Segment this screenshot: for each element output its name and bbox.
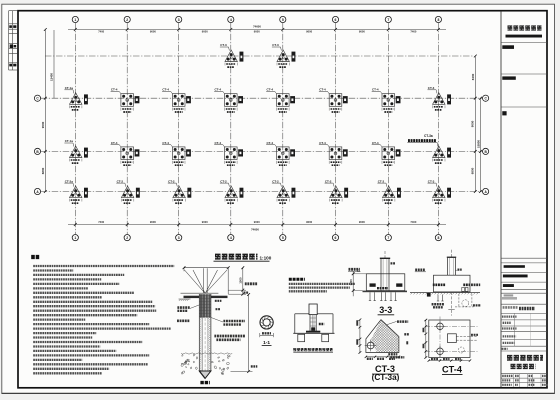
svg-text:CT-2: CT-2 <box>168 179 175 183</box>
top grid bubbles 1-8 <box>72 16 441 22</box>
svg-text:3: 3 <box>178 18 180 22</box>
mini elevation: column <box>309 304 317 331</box>
svg-text:7: 7 <box>387 236 389 240</box>
svg-text:9000: 9000 <box>254 220 260 224</box>
title block bar row 2 <box>503 275 528 278</box>
pile cap CT-4 row 2 col 3 <box>162 141 191 165</box>
svg-text:CT-2: CT-2 <box>325 179 332 183</box>
pile cap CT-3 row 3 col 8 <box>428 179 452 203</box>
pile cap CT-4 row 1 col 5 <box>266 88 295 112</box>
cap section: column <box>447 250 462 276</box>
svg-text:9000: 9000 <box>202 30 208 34</box>
svg-text:1:100: 1:100 <box>260 255 272 260</box>
pile cap CT-4 row 1 col 2 <box>111 88 140 112</box>
svg-text:6800: 6800 <box>41 167 45 174</box>
svg-text:7: 7 <box>387 18 389 22</box>
svg-text:8: 8 <box>437 18 439 22</box>
svg-text:(CT-3a): (CT-3a) <box>372 373 400 382</box>
detail CT-4 plan: outline <box>425 317 478 361</box>
notes text lines <box>33 266 174 373</box>
pile detail: shaft <box>199 294 211 371</box>
title block: institute name <box>508 25 542 30</box>
pile cap CT-4 row 2 col 4 <box>214 141 243 165</box>
pile cap CT-4 row 1 col 6 <box>319 88 348 112</box>
svg-text:9000: 9000 <box>41 121 45 128</box>
pile cap CT-4 row 2 col 2 <box>111 141 140 165</box>
mini elevation: caption <box>293 349 333 352</box>
title block stamp box 2 <box>502 76 516 79</box>
title block project name row <box>503 306 518 309</box>
pile detail: tip label <box>200 381 209 384</box>
section 3-3: column <box>380 251 395 291</box>
svg-text:CT-1a: CT-1a <box>65 86 74 90</box>
svg-text:CT-2: CT-2 <box>117 179 124 183</box>
svg-text:5: 5 <box>282 18 284 22</box>
detail CT-4 plan: column stub <box>448 334 479 353</box>
pile detail: pile tip <box>199 371 211 378</box>
svg-text:15800: 15800 <box>476 140 480 148</box>
svg-text:3-3: 3-3 <box>379 305 392 315</box>
sub-notes heading <box>289 278 305 281</box>
svg-text:4: 4 <box>230 236 232 240</box>
mini elevation: pile legs <box>298 334 329 341</box>
svg-text:CT-4: CT-4 <box>372 141 379 145</box>
cap section: -1.50 level label <box>415 270 426 272</box>
svg-text:9000: 9000 <box>306 30 312 34</box>
svg-text:1500: 1500 <box>239 277 243 284</box>
bottom outer accent line <box>2 392 555 394</box>
svg-text:74600: 74600 <box>253 24 261 28</box>
title block gray bar 1 <box>504 294 514 296</box>
pile cap CT-3 row 1 col 8 <box>428 86 452 110</box>
mini elevation: cap outline <box>293 314 334 334</box>
left dimension line <box>41 28 54 193</box>
left grid bubbles <box>34 95 40 194</box>
label CT-3a with elevation note <box>407 134 438 146</box>
bottom grid bubbles 1-8 <box>72 235 441 241</box>
pile cap CT-2 row 3 col 6 <box>325 179 349 203</box>
detail CT-3 plan: left dims <box>356 319 361 354</box>
svg-text:9000: 9000 <box>150 30 156 34</box>
detail CT-3 plan: bottom dims <box>365 356 400 359</box>
svg-text:9000: 9000 <box>254 30 260 34</box>
pile cap CT-4 row 1 col 3 <box>162 88 191 112</box>
pile detail: anchor bar fan <box>185 268 228 293</box>
pile detail: cap slab band <box>184 296 228 298</box>
right grid bubbles <box>483 95 489 194</box>
svg-text:7400: 7400 <box>410 30 416 34</box>
left revision strip <box>9 11 18 70</box>
pile cap CT-2 row 3 col 7 <box>377 179 401 203</box>
title block gray bar 2 <box>502 297 517 300</box>
svg-text:CT-4: CT-4 <box>319 88 326 92</box>
pile cap CT-3 top row col 4 <box>220 43 244 67</box>
pile cap CT-2 row 3 col 3 <box>168 179 191 203</box>
svg-text:CT-4: CT-4 <box>215 141 222 145</box>
svg-text:6: 6 <box>335 236 337 240</box>
svg-text:CT-2: CT-2 <box>220 179 227 183</box>
axis line row B <box>41 150 483 152</box>
svg-text:CT-3: CT-3 <box>220 43 227 47</box>
pile cap CT-4 row 2 col 6 <box>319 141 348 165</box>
pile detail: labels right <box>211 301 245 340</box>
svg-text:6800: 6800 <box>470 167 474 174</box>
pile cap CT-4 row 2 col 7 <box>372 141 401 165</box>
svg-text:CT-2: CT-2 <box>378 179 385 183</box>
svg-text:CT-2a: CT-2a <box>65 179 74 183</box>
svg-text:1200: 1200 <box>349 279 353 286</box>
svg-text:CT-3: CT-3 <box>428 86 435 90</box>
detail CT-3 plan: leader labels <box>386 321 409 357</box>
pile cap CT-1a row 1 col 1 <box>64 86 88 110</box>
title block drawing title line 2 <box>511 364 536 369</box>
svg-text:9000: 9000 <box>202 220 208 224</box>
svg-text:9000: 9000 <box>359 220 365 224</box>
title block bottom table <box>502 374 547 387</box>
cap section: dowels below <box>432 295 445 308</box>
pile cap CT-3 top row col 5 <box>272 43 296 67</box>
axis line top partial row <box>45 55 474 57</box>
axis line row C <box>41 191 483 193</box>
pile detail: length dim right <box>231 293 258 373</box>
svg-text:8400: 8400 <box>471 73 475 80</box>
svg-text:CT-4: CT-4 <box>267 141 274 145</box>
top dimension line <box>68 24 446 33</box>
title block drawing title line 1 <box>507 355 543 361</box>
section 3-3: floor level label <box>348 269 361 271</box>
pile detail: left hatch marks <box>179 299 191 301</box>
svg-text:CT-4: CT-4 <box>442 365 463 375</box>
section 3-3: left dim <box>349 271 366 296</box>
svg-text:1: 1 <box>74 18 76 22</box>
title block bar row 3 <box>503 284 514 287</box>
cap section: hidden pile dashed <box>448 292 481 316</box>
svg-text:CT-3a: CT-3a <box>424 134 433 138</box>
detail CT-3 plan: outline <box>366 320 399 353</box>
pile cap CT-2 row 3 col 4 <box>220 179 244 203</box>
svg-text:CT-4: CT-4 <box>267 88 274 92</box>
pile detail: top dimension line <box>183 266 230 294</box>
svg-text:CT-1a: CT-1a <box>65 139 74 143</box>
detail CT-3 title <box>372 364 400 382</box>
svg-text:8: 8 <box>437 236 439 240</box>
pile cap CT-4 row 1 col 4 <box>214 88 243 112</box>
notes heading <box>31 255 39 259</box>
title block row lines <box>501 43 547 383</box>
svg-text:9000: 9000 <box>359 30 365 34</box>
pile cap CT-2 row 3 col 5 <box>272 179 296 203</box>
axis line row A <box>41 97 483 99</box>
detail CT-4 plan: pile crosshairs <box>435 321 446 357</box>
svg-text:CT-4: CT-4 <box>372 88 379 92</box>
svg-text:7400: 7400 <box>98 220 104 224</box>
svg-text:1: 1 <box>74 236 76 240</box>
svg-text:74600: 74600 <box>251 228 259 232</box>
svg-text:9000: 9000 <box>150 220 156 224</box>
pile detail: labels left <box>177 305 199 321</box>
title block column divider <box>500 11 502 388</box>
title block signature table <box>502 313 531 348</box>
pile cap CT-2a row 3 col 1 <box>64 179 88 203</box>
right dimension lines <box>470 55 481 193</box>
section 3-3: base hatch and dowels <box>363 291 408 301</box>
svg-text:11400: 11400 <box>49 73 53 81</box>
detail CT-4 plan: left/bottom dims <box>423 319 472 362</box>
svg-text:CT-4: CT-4 <box>319 141 326 145</box>
svg-text:CT-3: CT-3 <box>428 179 435 183</box>
svg-text:6: 6 <box>335 18 337 22</box>
svg-text:9000: 9000 <box>470 120 474 127</box>
svg-text:2: 2 <box>126 18 128 22</box>
svg-text:CT-4: CT-4 <box>111 141 118 145</box>
svg-text:7400: 7400 <box>410 220 416 224</box>
pile cap CT-2 row 3 col 2 <box>116 179 139 203</box>
pile cap CT-4 row 2 col 5 <box>266 141 295 165</box>
section 1-1 ring <box>260 316 274 346</box>
detail CT-4 title <box>442 365 463 375</box>
svg-text:CT-4: CT-4 <box>162 88 169 92</box>
bottom dimension line <box>68 220 446 231</box>
section 3-3 title <box>378 305 395 315</box>
title block stamp box 1 <box>502 45 514 49</box>
title block stamp box 3 <box>502 111 506 115</box>
pile cap CT-1a row 2 col 1 <box>64 139 88 163</box>
title block bar row 1 <box>504 265 525 268</box>
svg-text:4: 4 <box>230 18 232 22</box>
pile detail: right dim (cap depth) <box>228 266 257 295</box>
pile detail: cap top line <box>181 292 219 294</box>
svg-text:2: 2 <box>126 236 128 240</box>
svg-text:CT-2: CT-2 <box>272 179 279 183</box>
section 3-3: cap body <box>366 274 405 291</box>
plan column grid lines <box>75 23 438 235</box>
cap section: cap body <box>433 275 480 292</box>
pile detail: soil squiggle and pebbles <box>181 353 233 375</box>
svg-text:7400: 7400 <box>98 30 104 34</box>
svg-text:CT-4: CT-4 <box>215 88 222 92</box>
svg-text:CT-3: CT-3 <box>272 43 279 47</box>
pile cap CT-3a row 2 col 8 <box>433 146 451 163</box>
svg-text:CT-4: CT-4 <box>111 88 118 92</box>
svg-text:CT-4: CT-4 <box>162 141 169 145</box>
plan title (main drawing title) <box>214 255 272 261</box>
svg-text:5: 5 <box>282 236 284 240</box>
detail CT-3 plan: pile crosshair <box>365 340 377 352</box>
pile cap CT-4 row 1 col 7 <box>372 88 401 112</box>
svg-text:9000: 9000 <box>306 220 312 224</box>
sub-notes lines <box>289 284 355 291</box>
title block: institute underline bar <box>506 35 543 38</box>
cap section: ground hatch <box>410 293 480 297</box>
svg-text:3: 3 <box>178 236 180 240</box>
